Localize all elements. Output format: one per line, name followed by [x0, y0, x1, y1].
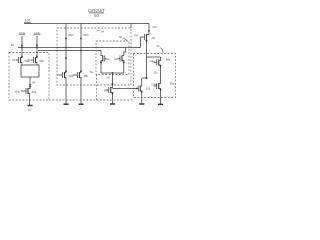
current arrow 104b [34, 31, 40, 35]
svg-text:60: 60 [119, 35, 122, 39]
svg-text:64a: 64a [89, 71, 94, 74]
node label 64a [89, 71, 94, 74]
transistor Q1b label 56b [27, 59, 30, 62]
transistor Q1c label 66a [15, 89, 20, 93]
wire Q5 gate riser to bias B [140, 37, 142, 48]
ground tail branch [110, 103, 115, 105]
svg-text:56b: 56b [39, 59, 44, 63]
svg-text:54: 54 [101, 29, 105, 33]
wire supply rail [24, 23, 149, 25]
svg-text:106b: 106b [83, 33, 89, 37]
junction dots [21, 47, 23, 49]
svg-text:Vba: Vba [15, 89, 20, 93]
svg-text:50: 50 [94, 13, 99, 18]
ground Q8 [158, 103, 163, 105]
transistor Q2b label 62b [122, 48, 126, 56]
svg-text:96: 96 [152, 36, 155, 40]
current arrow 104a [19, 31, 25, 35]
transistor Q4 label 66b [106, 89, 109, 91]
dashed box 94 (right output branch) [134, 54, 176, 98]
node label 92 (bias line A end) [11, 43, 14, 47]
wire drain branch 2 with arrow 106b [80, 24, 82, 72]
wire rail drop with current arrow 100 [148, 24, 150, 34]
junction dot node 78 [146, 77, 148, 79]
svg-text:116: 116 [154, 72, 159, 75]
node label 102 (supply rail) [25, 19, 31, 23]
wire tail current 68 [112, 73, 114, 87]
transistor Q3a label 58a [57, 74, 60, 77]
ground middle branch 1 [64, 103, 69, 105]
svg-text:112: 112 [27, 108, 32, 112]
ground middle branch 2 [79, 103, 84, 105]
wire bias line B [38, 50, 101, 52]
svg-text:66b: 66b [104, 89, 109, 93]
wire drain branch 1 with arrow 106a [65, 24, 67, 72]
wire common source of mirror pair [101, 72, 124, 74]
dashed box 52 (left branch) [9, 53, 49, 101]
svg-text:98a: 98a [166, 58, 171, 62]
transistor Q6 label 98a [149, 60, 155, 63]
svg-text:100: 100 [152, 25, 157, 29]
svg-text:92: 92 [11, 43, 14, 47]
wire to right box gate with end dot [113, 88, 137, 90]
transistor Q7 label 118 [137, 88, 139, 90]
svg-text:106a: 106a [68, 33, 74, 37]
svg-text:94: 94 [157, 44, 160, 48]
wire diode link to Q7 [142, 77, 147, 79]
svg-text:104b: 104b [34, 31, 40, 35]
svg-text:104a: 104a [19, 31, 25, 35]
wire bias line A [18, 47, 141, 49]
transistor Q3b label 58b [72, 74, 75, 77]
svg-text:62b: 62b [114, 57, 119, 61]
svg-text:62a: 62a [105, 57, 110, 61]
svg-text:64: 64 [32, 80, 35, 84]
transistor Q5 label 96 [134, 34, 139, 37]
transistor Q8 label 98b [151, 84, 157, 87]
node label 116 [154, 72, 159, 75]
transistor Q2a label 62a (mirrored) [101, 51, 103, 56]
dashed tail-region left edge [96, 75, 98, 101]
dashed box 54 (middle) [57, 28, 131, 85]
svg-text:98b: 98b [170, 82, 175, 86]
ground Q7 [139, 103, 144, 105]
block 58 (rectangle) [21, 65, 39, 77]
wire with current arrow 64 [29, 77, 31, 88]
transistor Q1a label 56a [12, 59, 15, 62]
title CIRCUIT 50 [88, 8, 105, 18]
wire Q5 source to Q6 drain [147, 56, 161, 58]
svg-text:66a: 66a [32, 90, 37, 94]
svg-text:110: 110 [134, 34, 139, 37]
svg-text:118: 118 [146, 86, 151, 90]
dashed box 60 (nested mirror pair) [96, 41, 129, 75]
svg-text:102: 102 [25, 19, 31, 23]
long dashed boundary bottom [49, 99, 134, 101]
ground left branch [28, 105, 33, 107]
svg-text:58b: 58b [83, 74, 88, 78]
